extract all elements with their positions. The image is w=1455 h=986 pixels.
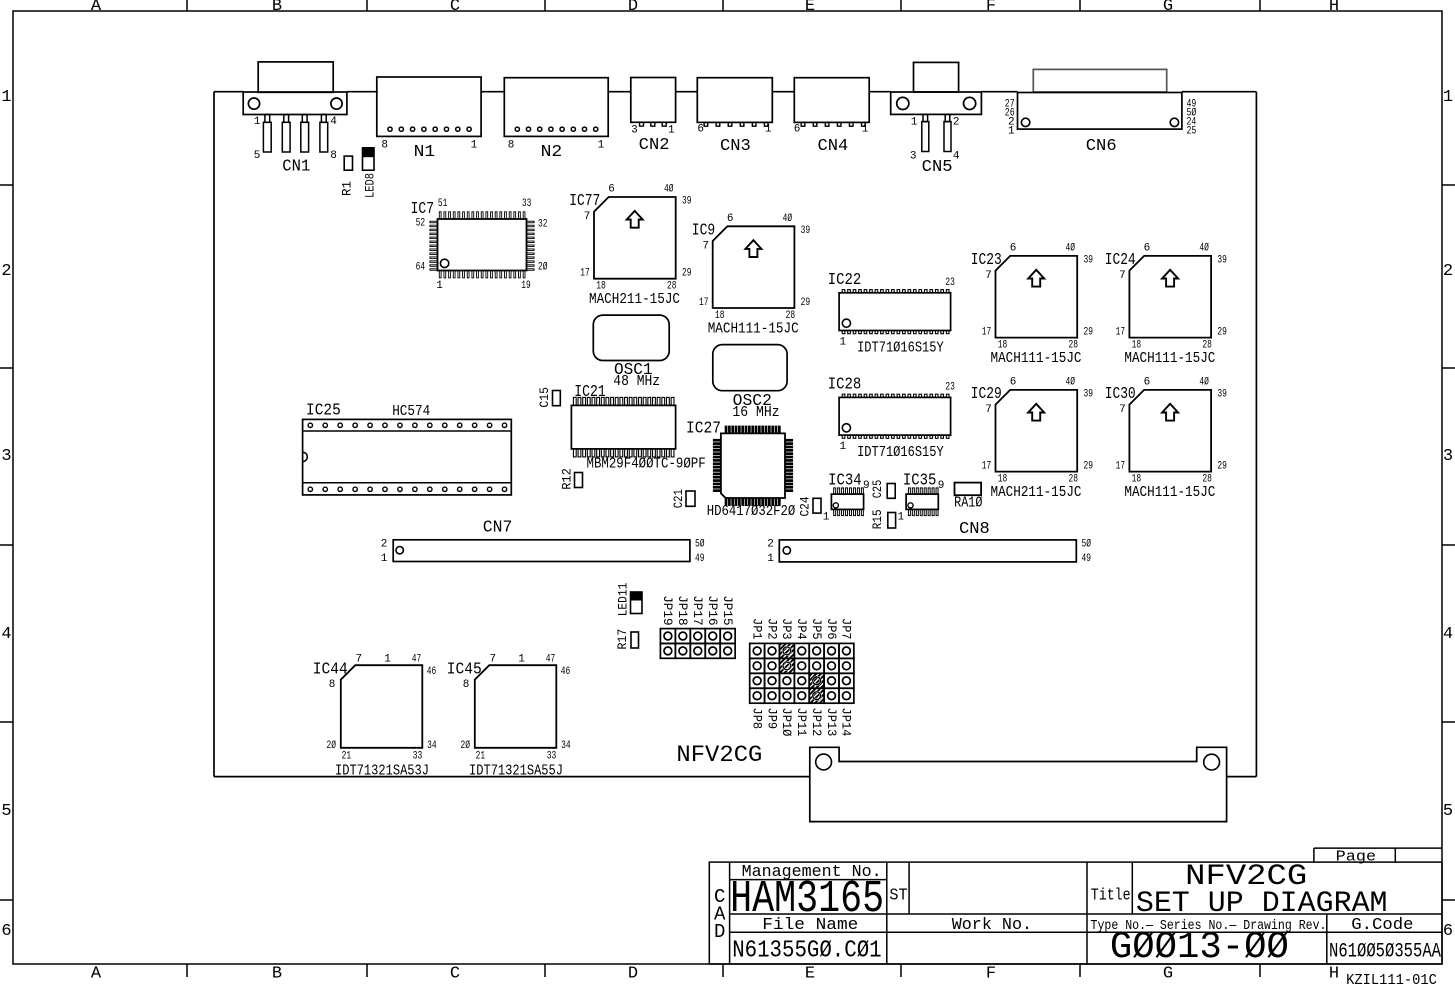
connector CN5 xyxy=(891,62,982,177)
svg-text:IDT71321SA55J: IDT71321SA55J xyxy=(469,764,563,780)
svg-text:33: 33 xyxy=(522,198,532,210)
svg-text:IC21: IC21 xyxy=(574,383,606,402)
svg-text:HC574: HC574 xyxy=(392,404,430,420)
svg-text:CN1: CN1 xyxy=(282,158,310,177)
svg-text:18: 18 xyxy=(1132,474,1142,486)
svg-text:CN5: CN5 xyxy=(922,158,953,177)
svg-text:5Ø: 5Ø xyxy=(1082,538,1092,550)
LED LED8 xyxy=(362,148,377,198)
LED LED11 xyxy=(615,582,642,616)
svg-text:33: 33 xyxy=(547,751,557,763)
svg-text:IC35: IC35 xyxy=(903,472,937,491)
svg-text:2Ø: 2Ø xyxy=(327,740,337,752)
PCB board outline left edge xyxy=(213,92,215,777)
svg-text:8: 8 xyxy=(463,679,470,691)
svg-text:6: 6 xyxy=(1,922,11,941)
svg-text:JP17: JP17 xyxy=(690,595,705,625)
svg-text:7: 7 xyxy=(985,270,992,282)
IC IC77 PLCC xyxy=(569,184,691,309)
svg-text:IC23: IC23 xyxy=(971,251,1002,270)
svg-text:1: 1 xyxy=(518,654,525,666)
svg-text:34: 34 xyxy=(561,740,571,752)
svg-text:8: 8 xyxy=(330,150,337,162)
svg-text:6: 6 xyxy=(1010,376,1017,388)
svg-text:18: 18 xyxy=(998,340,1008,352)
svg-text:GØØ13-ØØ: GØØ13-ØØ xyxy=(1110,926,1289,969)
svg-text:21: 21 xyxy=(342,751,352,763)
svg-text:JP15: JP15 xyxy=(720,595,735,625)
capacitor C24 xyxy=(798,496,822,516)
svg-text:RA1Ø: RA1Ø xyxy=(954,496,983,512)
svg-text:4Ø: 4Ø xyxy=(1065,242,1075,254)
svg-text:6: 6 xyxy=(1144,242,1151,254)
svg-text:HD6417Ø32F2Ø: HD6417Ø32F2Ø xyxy=(707,504,796,520)
connector CN8 xyxy=(767,520,1091,565)
svg-text:18: 18 xyxy=(1132,340,1142,352)
svg-text:17: 17 xyxy=(982,461,992,473)
svg-text:JP4: JP4 xyxy=(794,618,809,640)
svg-text:6: 6 xyxy=(1010,242,1017,254)
oscillator OSC2 xyxy=(713,345,787,421)
svg-text:7: 7 xyxy=(985,404,992,416)
svg-text:8: 8 xyxy=(508,139,515,151)
svg-text:A: A xyxy=(91,965,102,984)
svg-text:29: 29 xyxy=(801,297,811,309)
svg-text:IC44: IC44 xyxy=(313,661,348,680)
svg-text:IC29: IC29 xyxy=(971,385,1002,404)
svg-text:NFV2CG: NFV2CG xyxy=(676,742,762,768)
svg-text:JP14: JP14 xyxy=(839,708,854,737)
PCB board outline top edge segments xyxy=(214,91,1256,93)
svg-text:47: 47 xyxy=(412,654,422,666)
svg-text:IDT71321SA53J: IDT71321SA53J xyxy=(335,764,429,780)
capacitor C25 xyxy=(870,480,895,499)
svg-text:D: D xyxy=(628,965,638,984)
svg-text:JP11: JP11 xyxy=(794,708,809,737)
svg-text:9: 9 xyxy=(863,480,870,492)
connector CN4 xyxy=(794,78,869,156)
svg-text:2: 2 xyxy=(953,117,960,129)
svg-text:23: 23 xyxy=(945,381,955,393)
connector CN3 xyxy=(697,78,772,156)
svg-text:29: 29 xyxy=(1083,327,1093,339)
svg-text:5: 5 xyxy=(1,802,11,821)
bottom edge connector bracket xyxy=(810,747,1227,821)
svg-text:2: 2 xyxy=(381,538,388,550)
svg-text:LED8: LED8 xyxy=(362,173,377,198)
svg-text:1: 1 xyxy=(381,553,388,565)
svg-text:R15: R15 xyxy=(870,509,885,529)
svg-text:39: 39 xyxy=(682,196,692,208)
capacitor C15 xyxy=(537,387,561,408)
svg-text:IC77: IC77 xyxy=(569,192,600,211)
svg-text:JP18: JP18 xyxy=(675,595,690,625)
svg-text:1: 1 xyxy=(1443,88,1453,107)
svg-text:IDT71Ø16S15Y: IDT71Ø16S15Y xyxy=(857,340,944,356)
IC IC35 SOIC xyxy=(897,472,944,524)
svg-text:17: 17 xyxy=(580,268,590,280)
svg-text:G.Code: G.Code xyxy=(1351,916,1413,935)
svg-text:MACH111-15JC: MACH111-15JC xyxy=(1124,351,1215,367)
jumper block JP1-JP14 xyxy=(749,618,853,737)
svg-text:JP6: JP6 xyxy=(824,618,839,640)
svg-text:29: 29 xyxy=(682,268,692,280)
svg-text:1: 1 xyxy=(862,124,869,136)
svg-text:8: 8 xyxy=(329,679,336,691)
IC IC23 PLCC xyxy=(971,242,1093,367)
svg-text:MACH111-15JC: MACH111-15JC xyxy=(991,351,1082,367)
svg-text:JP12: JP12 xyxy=(809,708,824,737)
svg-text:7: 7 xyxy=(584,211,591,223)
svg-text:N2: N2 xyxy=(541,143,563,162)
svg-text:18: 18 xyxy=(998,474,1008,486)
svg-text:1: 1 xyxy=(384,654,391,666)
svg-text:17: 17 xyxy=(1116,327,1126,339)
svg-text:39: 39 xyxy=(1083,255,1093,267)
svg-text:1: 1 xyxy=(471,139,478,151)
resistor R12 xyxy=(560,468,583,490)
svg-text:1: 1 xyxy=(839,441,846,453)
svg-text:21: 21 xyxy=(476,751,486,763)
svg-text:1: 1 xyxy=(254,116,261,128)
svg-text:JP13: JP13 xyxy=(824,708,839,737)
svg-text:7: 7 xyxy=(1119,270,1126,282)
svg-text:8: 8 xyxy=(381,139,388,151)
connector N1 xyxy=(377,77,481,162)
svg-text:28: 28 xyxy=(786,310,796,322)
svg-text:32: 32 xyxy=(538,218,548,230)
svg-text:4Ø: 4Ø xyxy=(783,213,793,225)
capacitor C21 xyxy=(671,489,695,508)
svg-text:7: 7 xyxy=(489,654,496,666)
svg-text:39: 39 xyxy=(801,225,811,237)
svg-text:C15: C15 xyxy=(537,387,552,408)
svg-text:ST: ST xyxy=(889,887,907,906)
connector CN2 xyxy=(631,78,676,156)
svg-text:52: 52 xyxy=(416,218,426,230)
svg-text:B: B xyxy=(272,0,282,16)
svg-text:3: 3 xyxy=(1,447,11,466)
IC IC9 PLCC xyxy=(692,213,810,338)
svg-text:47: 47 xyxy=(546,654,556,666)
svg-text:F: F xyxy=(986,965,996,984)
svg-text:48 MHz: 48 MHz xyxy=(613,374,660,390)
svg-text:4Ø: 4Ø xyxy=(1199,242,1209,254)
svg-text:File Name: File Name xyxy=(762,916,858,935)
svg-text:C21: C21 xyxy=(671,489,686,508)
svg-text:KZIL111-01C: KZIL111-01C xyxy=(1346,973,1437,986)
svg-text:28: 28 xyxy=(1068,474,1078,486)
svg-text:JP7: JP7 xyxy=(839,618,854,640)
svg-text:N61ØØ5Ø355AA: N61ØØ5Ø355AA xyxy=(1329,941,1441,964)
connector CN6 xyxy=(1005,69,1197,156)
svg-text:2Ø: 2Ø xyxy=(538,262,548,274)
svg-text:19: 19 xyxy=(521,280,531,292)
svg-text:49: 49 xyxy=(695,553,705,565)
svg-text:R17: R17 xyxy=(615,629,630,650)
svg-text:28: 28 xyxy=(667,281,677,293)
svg-text:1: 1 xyxy=(839,336,846,348)
svg-text:JP3: JP3 xyxy=(779,618,794,640)
svg-text:7: 7 xyxy=(1119,404,1126,416)
IC IC27 HD6417032F20 QFP xyxy=(686,419,796,520)
svg-text:28: 28 xyxy=(1068,340,1078,352)
svg-text:MACH111-15JC: MACH111-15JC xyxy=(708,322,799,338)
svg-text:3: 3 xyxy=(1443,447,1453,466)
svg-text:MACH111-15JC: MACH111-15JC xyxy=(1124,485,1215,501)
svg-text:18: 18 xyxy=(596,281,606,293)
svg-text:6: 6 xyxy=(1443,922,1453,941)
PCB board outline right edge xyxy=(1255,92,1257,777)
svg-text:9: 9 xyxy=(938,480,945,492)
IC IC29 PLCC xyxy=(971,376,1093,501)
svg-text:6: 6 xyxy=(697,124,704,136)
svg-text:IC30: IC30 xyxy=(1105,385,1136,404)
svg-text:49: 49 xyxy=(1082,553,1092,565)
svg-text:16 MHz: 16 MHz xyxy=(732,405,779,421)
svg-text:MBM29F4ØØTC-9ØPF: MBM29F4ØØTC-9ØPF xyxy=(587,457,706,473)
svg-text:3: 3 xyxy=(910,151,917,163)
svg-text:Work No.: Work No. xyxy=(952,916,1032,935)
svg-text:CN2: CN2 xyxy=(639,136,670,155)
svg-text:46: 46 xyxy=(561,666,571,678)
PCB board outline bottom edge left segment xyxy=(214,776,810,778)
svg-text:4: 4 xyxy=(1,625,11,644)
svg-text:1: 1 xyxy=(897,512,904,524)
svg-text:MACH211-15JC: MACH211-15JC xyxy=(589,292,680,308)
svg-text:Title: Title xyxy=(1091,887,1131,906)
svg-text:4Ø: 4Ø xyxy=(1199,376,1209,388)
svg-text:2: 2 xyxy=(1443,262,1453,281)
svg-text:IC34: IC34 xyxy=(828,472,862,491)
svg-text:2Ø: 2Ø xyxy=(461,740,471,752)
svg-text:JP5: JP5 xyxy=(809,618,824,640)
svg-text:C24: C24 xyxy=(798,496,813,516)
svg-text:F: F xyxy=(986,0,996,16)
svg-text:6: 6 xyxy=(1144,376,1151,388)
svg-text:34: 34 xyxy=(427,740,437,752)
svg-text:H: H xyxy=(1329,0,1339,16)
svg-text:1: 1 xyxy=(911,117,918,129)
svg-text:JP19: JP19 xyxy=(660,595,675,625)
svg-text:39: 39 xyxy=(1083,389,1093,401)
svg-text:17: 17 xyxy=(982,327,992,339)
IC IC22 SOJ IDT71016S15Y xyxy=(828,271,955,357)
svg-text:64: 64 xyxy=(416,262,426,274)
svg-text:4: 4 xyxy=(1443,625,1453,644)
IC IC25 HC574 xyxy=(303,402,512,495)
svg-text:29: 29 xyxy=(1217,327,1227,339)
svg-text:17: 17 xyxy=(1116,461,1126,473)
svg-text:6: 6 xyxy=(608,184,615,196)
svg-text:23: 23 xyxy=(945,277,955,289)
svg-text:5: 5 xyxy=(254,150,261,162)
svg-text:H: H xyxy=(1329,965,1339,984)
IC IC7 QFP64 xyxy=(411,198,548,292)
svg-text:IC24: IC24 xyxy=(1105,251,1136,270)
svg-text:JP16: JP16 xyxy=(705,595,720,625)
svg-text:4Ø: 4Ø xyxy=(664,184,674,196)
svg-text:JP9: JP9 xyxy=(764,708,779,730)
svg-text:5: 5 xyxy=(1443,802,1453,821)
connector CN1 xyxy=(243,62,347,177)
svg-text:17: 17 xyxy=(699,297,709,309)
IC IC34 SOIC xyxy=(823,472,870,524)
svg-text:28: 28 xyxy=(1202,474,1212,486)
svg-text:IC7: IC7 xyxy=(411,200,434,219)
svg-text:IC22: IC22 xyxy=(828,271,862,290)
svg-text:E: E xyxy=(805,965,815,984)
svg-text:18: 18 xyxy=(715,310,725,322)
svg-text:R12: R12 xyxy=(560,468,575,490)
svg-text:2: 2 xyxy=(767,538,774,550)
svg-text:51: 51 xyxy=(438,198,448,210)
svg-text:5Ø: 5Ø xyxy=(695,538,705,550)
title block texts xyxy=(714,849,1441,969)
svg-text:IDT71Ø16S15Y: IDT71Ø16S15Y xyxy=(857,445,944,461)
svg-text:7: 7 xyxy=(702,240,709,252)
title block xyxy=(709,848,1442,964)
oscillator OSC1 xyxy=(593,315,669,390)
svg-text:N61355GØ.CØ1: N61355GØ.CØ1 xyxy=(732,938,881,965)
svg-text:Page: Page xyxy=(1336,849,1376,866)
connector N2 xyxy=(504,78,608,162)
svg-text:CN4: CN4 xyxy=(818,137,849,156)
svg-text:R1: R1 xyxy=(340,181,355,196)
svg-text:33: 33 xyxy=(413,751,423,763)
svg-text:JP1Ø: JP1Ø xyxy=(779,708,794,737)
svg-text:4: 4 xyxy=(953,151,960,163)
svg-text:LED11: LED11 xyxy=(615,582,630,616)
svg-text:4: 4 xyxy=(330,116,337,128)
svg-text:D: D xyxy=(714,921,725,943)
svg-text:1: 1 xyxy=(436,280,443,292)
svg-text:1: 1 xyxy=(1,88,11,107)
svg-text:N1: N1 xyxy=(414,143,436,162)
svg-text:B: B xyxy=(272,965,282,984)
svg-text:C: C xyxy=(450,965,460,984)
svg-text:D: D xyxy=(628,0,638,16)
resistor R1 xyxy=(340,156,355,196)
svg-text:1: 1 xyxy=(668,125,675,137)
svg-text:39: 39 xyxy=(1217,389,1227,401)
IC IC44 PLCC xyxy=(313,654,437,780)
svg-text:CN8: CN8 xyxy=(959,520,990,539)
svg-text:46: 46 xyxy=(427,666,437,678)
svg-text:JP8: JP8 xyxy=(749,708,764,730)
PCB board outline bottom edge right segment xyxy=(1227,776,1257,778)
svg-text:3: 3 xyxy=(631,125,638,137)
svg-text:A: A xyxy=(91,0,102,16)
resistor array RA10 xyxy=(954,483,983,512)
svg-text:IC25: IC25 xyxy=(306,402,341,421)
svg-text:25: 25 xyxy=(1187,125,1197,137)
svg-text:CN3: CN3 xyxy=(720,137,751,156)
svg-text:1: 1 xyxy=(765,124,772,136)
connector CN7 xyxy=(381,518,705,565)
svg-text:1: 1 xyxy=(767,553,774,565)
svg-text:G: G xyxy=(1163,0,1173,16)
svg-text:JP2: JP2 xyxy=(764,618,779,640)
svg-text:39: 39 xyxy=(1217,255,1227,267)
svg-text:JP1: JP1 xyxy=(749,618,764,640)
IC IC21 MBM29F400TC-90PF SOP xyxy=(571,383,705,473)
svg-text:1: 1 xyxy=(823,512,830,524)
svg-text:CN7: CN7 xyxy=(483,518,513,537)
IC IC30 PLCC xyxy=(1105,376,1227,501)
svg-text:2: 2 xyxy=(1,262,11,281)
svg-text:IC9: IC9 xyxy=(692,221,715,240)
resistor R15 xyxy=(870,509,896,529)
jumper block JP15-JP19 xyxy=(660,595,735,658)
svg-text:IC45: IC45 xyxy=(447,661,482,680)
svg-text:7: 7 xyxy=(355,654,362,666)
svg-text:29: 29 xyxy=(1083,461,1093,473)
resistor R17 xyxy=(615,629,639,650)
svg-text:MACH211-15JC: MACH211-15JC xyxy=(991,485,1082,501)
svg-text:1: 1 xyxy=(1008,125,1015,137)
svg-text:SET UP DIAGRAM: SET UP DIAGRAM xyxy=(1136,887,1388,921)
svg-text:IC28: IC28 xyxy=(828,375,862,394)
svg-text:C25: C25 xyxy=(870,480,885,499)
svg-text:4Ø: 4Ø xyxy=(1065,376,1075,388)
svg-text:6: 6 xyxy=(727,213,734,225)
svg-text:E: E xyxy=(805,0,815,16)
svg-text:CN6: CN6 xyxy=(1086,137,1117,156)
svg-text:1: 1 xyxy=(598,139,605,151)
svg-text:28: 28 xyxy=(1202,340,1212,352)
svg-text:6: 6 xyxy=(794,124,801,136)
svg-text:IC27: IC27 xyxy=(686,419,721,438)
IC IC28 SOJ IDT71016S15Y xyxy=(828,375,955,461)
svg-text:29: 29 xyxy=(1217,461,1227,473)
IC IC24 PLCC xyxy=(1105,242,1227,367)
svg-text:C: C xyxy=(450,0,460,16)
IC IC45 PLCC xyxy=(447,654,571,780)
